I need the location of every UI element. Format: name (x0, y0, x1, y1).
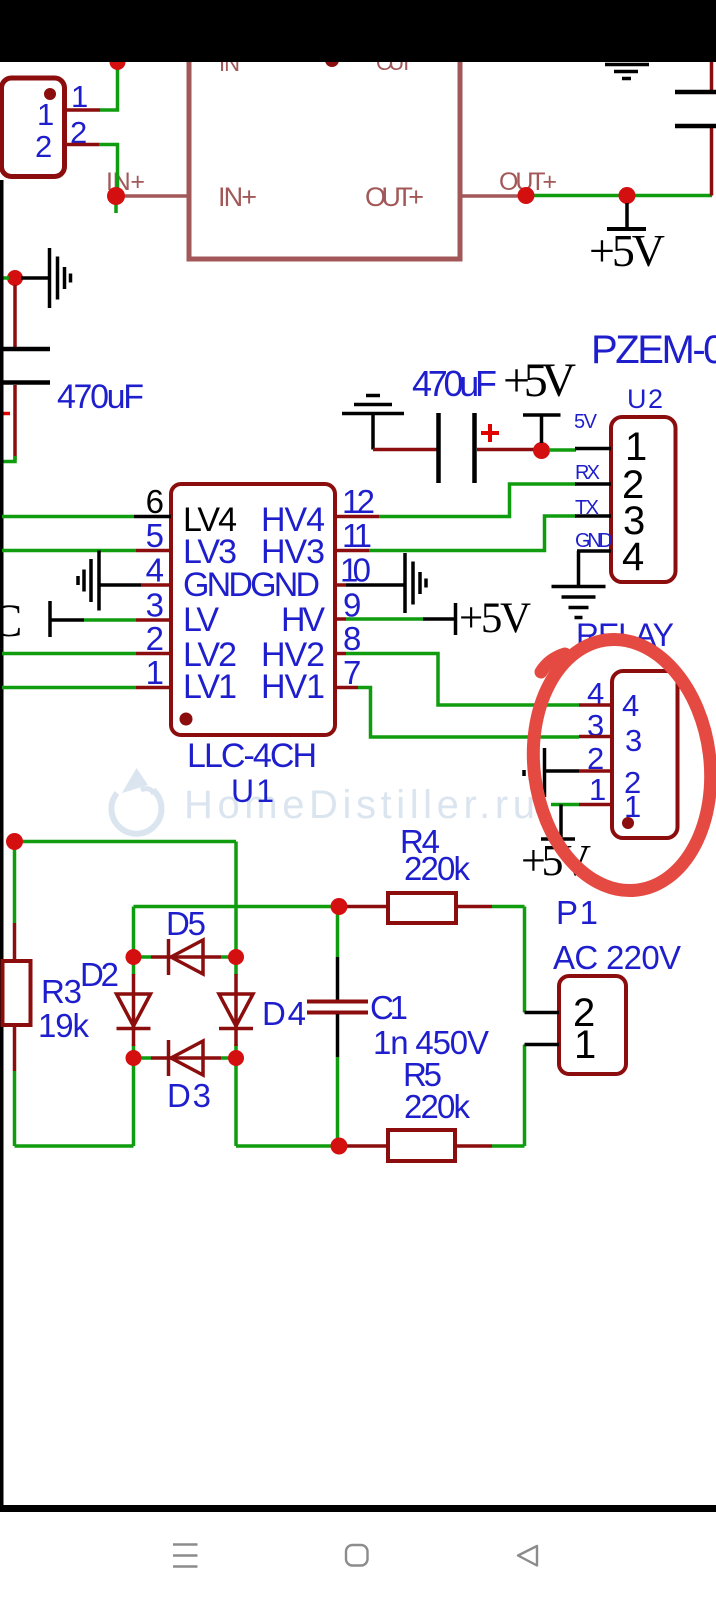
svg-text:220k: 220k (404, 1088, 471, 1125)
svg-text:1: 1 (146, 654, 164, 691)
svg-text:LV: LV (183, 601, 219, 639)
svg-text:5V: 5V (574, 411, 598, 433)
svg-text:+5V: +5V (459, 595, 531, 642)
svg-text:C: C (0, 595, 22, 647)
svg-text:LLC-4CH: LLC-4CH (187, 737, 317, 775)
svg-text:U1: U1 (231, 773, 274, 809)
svg-text:4: 4 (146, 552, 164, 589)
svg-text:3: 3 (146, 587, 164, 624)
svg-text:OUT+: OUT+ (365, 182, 424, 212)
svg-text:1: 1 (37, 97, 54, 132)
svg-text:D5: D5 (166, 905, 206, 942)
svg-text:11: 11 (342, 517, 372, 554)
svg-text:4: 4 (622, 535, 644, 579)
svg-text:D3: D3 (167, 1077, 211, 1114)
svg-text:2: 2 (146, 620, 164, 657)
svg-text:7: 7 (343, 654, 361, 691)
svg-text:+5V: +5V (503, 354, 576, 407)
svg-text:PZEM-004T: PZEM-004T (591, 328, 716, 372)
svg-text:1: 1 (574, 1023, 596, 1067)
svg-text:5: 5 (146, 517, 164, 554)
svg-text:470uF: 470uF (412, 363, 497, 404)
svg-text:RX: RX (575, 462, 600, 484)
svg-text:LV1: LV1 (183, 668, 237, 706)
svg-text:4: 4 (622, 688, 639, 723)
svg-text:D4: D4 (262, 995, 306, 1032)
svg-text:D2: D2 (80, 956, 119, 993)
svg-text:19k: 19k (38, 1007, 90, 1044)
svg-text:220k: 220k (404, 850, 471, 887)
svg-text:AC 220V: AC 220V (553, 939, 681, 976)
svg-text:470uF: 470uF (57, 378, 144, 416)
svg-text:R3: R3 (41, 973, 82, 1010)
svg-text:2: 2 (35, 129, 52, 164)
svg-text:P1: P1 (556, 894, 598, 931)
svg-text:GND: GND (575, 530, 613, 552)
svg-text:GNDGND: GNDGND (183, 566, 320, 604)
svg-text:8: 8 (343, 620, 361, 657)
svg-text:3: 3 (625, 723, 642, 758)
svg-text:HV: HV (281, 601, 325, 639)
svg-text:U2: U2 (627, 384, 663, 414)
svg-text:10: 10 (340, 552, 371, 589)
svg-text:6: 6 (146, 483, 164, 520)
svg-text:12: 12 (342, 483, 375, 520)
svg-text:HV1: HV1 (261, 668, 325, 706)
svg-text:1: 1 (589, 772, 606, 807)
svg-text:+5V: +5V (589, 225, 665, 276)
svg-text:IN+: IN+ (218, 182, 257, 212)
svg-text:C1: C1 (370, 989, 408, 1026)
